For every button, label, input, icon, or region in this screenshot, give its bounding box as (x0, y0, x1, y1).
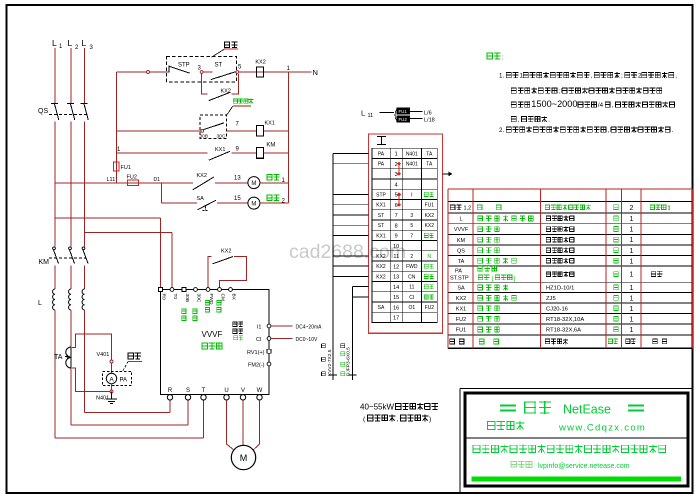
svg-text:FWD: FWD (406, 264, 418, 270)
svg-text:1: 1 (630, 306, 634, 313)
svg-text:,: , (607, 127, 609, 134)
svg-text:VVVF: VVVF (454, 227, 469, 233)
svg-text:1: 1 (630, 227, 634, 234)
svg-text:KX2: KX2 (376, 254, 386, 260)
wire TA secondary bottom (72, 368, 110, 392)
wire L2 down to S loop (70, 310, 72, 347)
svg-text:STP: STP (178, 63, 190, 69)
svg-text:1: 1 (395, 152, 398, 158)
svg-text:13: 13 (393, 275, 399, 281)
svg-text::: : (502, 55, 504, 62)
svg-text:1.: 1. (499, 73, 504, 80)
terminal strip symbol I (377, 137, 386, 145)
svg-text:NetEase: NetEase (563, 403, 611, 417)
svg-text:15: 15 (234, 196, 241, 202)
wire V to motor (242, 400, 244, 445)
contactor coil KM (256, 148, 263, 159)
svg-text:3: 3 (395, 172, 398, 178)
fuse FU1 (114, 162, 120, 171)
svg-text:1500~2000: 1500~2000 (531, 99, 577, 109)
svg-text:PA: PA (378, 151, 385, 157)
svg-text:V401: V401 (97, 352, 110, 358)
svg-text:6: 6 (395, 203, 398, 209)
svg-text:D1: D1 (154, 177, 161, 183)
svg-text:1: 1 (630, 237, 634, 244)
wire W to motor (254, 400, 260, 450)
svg-text:L: L (459, 217, 462, 223)
svg-text:.: . (672, 127, 674, 134)
svg-text:CN: CN (408, 274, 416, 280)
svg-text:KX2: KX2 (425, 213, 435, 219)
svg-text:R: R (168, 388, 173, 394)
svg-text:30C: 30C (217, 133, 226, 139)
wire L2 to KM (70, 122, 72, 247)
svg-text:VVVF: VVVF (202, 330, 223, 339)
svg-text:T0: T0 (172, 294, 178, 300)
wire ammeter to ground (111, 384, 113, 392)
svg-text:TA: TA (54, 354, 63, 361)
label meter note (128, 353, 141, 360)
svg-text:TA: TA (458, 259, 465, 265)
node N401 (110, 390, 113, 393)
svg-text:12: 12 (393, 264, 399, 270)
svg-text:;: ; (558, 88, 560, 95)
fan motor M1 (248, 177, 260, 189)
svg-text:M: M (240, 453, 248, 463)
node V401 (110, 360, 113, 363)
svg-text:1: 1 (630, 216, 634, 223)
svg-text:TA: TA (426, 151, 433, 157)
svg-text:M: M (251, 202, 256, 208)
svg-text:5: 5 (410, 223, 413, 229)
svg-text:BX: BX (231, 294, 237, 301)
contactor coil KX1 (256, 126, 263, 137)
switch SA (manual fan 2) (198, 200, 216, 210)
svg-text:KX2: KX2 (456, 296, 466, 302)
svg-text:CM: CM (220, 294, 226, 301)
svg-text:RT18-32X,6A: RT18-32X,6A (546, 328, 581, 334)
svg-text:L: L (82, 38, 87, 48)
svg-text:TA: TA (426, 162, 433, 168)
svg-text:S: S (186, 388, 190, 394)
svg-text::: : (534, 463, 536, 470)
svg-text:,: , (675, 73, 677, 80)
svg-text:5: 5 (395, 193, 398, 199)
wire tap L3 to T0 (85, 232, 173, 234)
wire TA secondary top (72, 334, 112, 373)
svg-text:10: 10 (393, 244, 399, 250)
svg-text:FU2: FU2 (127, 175, 137, 181)
wire CI input (271, 338, 293, 340)
svg-text:): ) (429, 416, 431, 423)
svg-text:1: 1 (630, 316, 634, 323)
svg-text:13: 13 (234, 176, 241, 182)
jumper links (red) (398, 164, 400, 174)
svg-text:I: I (411, 192, 412, 198)
svg-text:7: 7 (395, 213, 398, 219)
svg-text:30B: 30B (184, 294, 190, 303)
svg-text:,: , (612, 102, 614, 109)
relay coil KX2 (256, 67, 263, 77)
svg-text:;: ; (621, 73, 623, 80)
svg-text:N: N (313, 68, 318, 77)
svg-text:FU1: FU1 (121, 165, 131, 171)
svg-text:lvpinfo@service.netease.com: lvpinfo@service.netease.com (538, 463, 630, 470)
svg-text:7: 7 (410, 233, 413, 239)
svg-text:KX1: KX1 (456, 306, 466, 312)
svg-text:SA: SA (378, 305, 385, 311)
label run (green, vertical) (205, 300, 210, 305)
svg-text:ST: ST (378, 223, 384, 229)
svg-text:1: 1 (630, 258, 634, 265)
logo line 1 (500, 406, 516, 411)
svg-text:O1: O1 (408, 305, 415, 311)
fuse FU2 (128, 180, 139, 185)
inverter VVVF U1 (161, 290, 269, 395)
contact KX1 NO (209, 151, 230, 160)
svg-text:W: W (257, 388, 263, 394)
svg-text:30B: 30B (200, 133, 209, 139)
svg-text:KX2: KX2 (221, 249, 231, 255)
ammeter A (106, 373, 116, 383)
svg-text:QS: QS (38, 108, 48, 115)
svg-text:,: , (591, 73, 593, 80)
svg-text:ST: ST (378, 213, 384, 219)
svg-text:8: 8 (395, 223, 398, 229)
wire L3 drop (84, 48, 86, 104)
svg-text:KX2: KX2 (425, 223, 435, 229)
svg-text:1: 1 (630, 248, 634, 255)
svg-text:RV1(+): RV1(+) (247, 350, 265, 356)
inverter top terminals (159, 288, 163, 292)
svg-text:L: L (68, 38, 73, 48)
svg-text:): ) (514, 276, 516, 282)
wire control right rail (288, 72, 290, 203)
svg-text:R0: R0 (161, 294, 167, 300)
svg-text:CJ20-16: CJ20-16 (546, 306, 568, 312)
svg-text:SA: SA (457, 286, 465, 292)
logo email (511, 461, 532, 468)
svg-text:L11: L11 (107, 177, 116, 183)
label fault output (green, vertical) (182, 309, 187, 314)
terminal strip table (369, 134, 443, 333)
NetEase logo box (465, 393, 688, 486)
svg-text:40~55kW: 40~55kW (360, 403, 394, 412)
svg-text:9: 9 (395, 234, 398, 240)
svg-text:N: N (427, 254, 431, 260)
svg-text:ST: ST (215, 63, 223, 69)
svg-text:11: 11 (368, 113, 374, 119)
wire U to motor (227, 400, 234, 450)
svg-text:/4: /4 (598, 102, 604, 109)
contact KX2 self-hold (202, 74, 208, 94)
svg-text:DC0~10V: DC0~10V (296, 337, 318, 343)
svg-text:M: M (251, 181, 256, 187)
node junction (147, 71, 150, 74)
svg-text:FU2: FU2 (399, 117, 408, 122)
svg-text:RT18-32X,10A: RT18-32X,10A (546, 317, 584, 323)
logo line 2 (487, 421, 525, 430)
svg-text:STP: STP (376, 192, 386, 198)
logo green bar (472, 477, 682, 482)
arrow reference (443, 173, 449, 175)
wire L3 down to R loop (84, 310, 86, 413)
logo slogan (473, 445, 667, 454)
svg-text:KX1: KX1 (265, 121, 275, 127)
svg-text:www.Cdqzx.com: www.Cdqzx.com (558, 423, 646, 434)
label freq setting (233, 322, 244, 327)
svg-text:QS: QS (457, 248, 465, 254)
svg-text:(: ( (492, 276, 494, 282)
svg-text:FU1: FU1 (425, 203, 435, 209)
svg-text:PA: PA (120, 378, 128, 384)
svg-text:KX2: KX2 (376, 274, 386, 280)
svg-text:3: 3 (410, 213, 413, 219)
svg-text:ZJ5: ZJ5 (546, 296, 556, 302)
svg-text:HZ1D-10/1: HZ1D-10/1 (546, 286, 574, 292)
svg-text:KX2: KX2 (376, 264, 386, 270)
wires into terminal strip (332, 153, 334, 380)
svg-text:2.: 2. (499, 127, 504, 134)
svg-text:FU2: FU2 (456, 317, 466, 323)
svg-text:SA: SA (197, 196, 205, 202)
svg-text:1: 1 (630, 272, 634, 279)
fan motor M2 (248, 197, 260, 209)
svg-text:2: 2 (395, 162, 398, 168)
svg-text:KX1: KX1 (215, 147, 225, 153)
svg-text:KM: KM (457, 238, 466, 244)
wire tap L1 to R0 (55, 217, 161, 219)
wire L2 drop (70, 48, 72, 104)
svg-text:1: 1 (630, 327, 634, 334)
svg-text:KX1: KX1 (376, 233, 386, 239)
contact KX2 to FWD/CM (208, 256, 211, 287)
svg-text:KX2: KX2 (221, 89, 231, 95)
svg-text:14: 14 (393, 285, 399, 291)
svg-text:1: 1 (630, 295, 634, 302)
svg-text:KVV2-7X2.5: KVV2-7X2.5 (327, 349, 333, 376)
svg-text:L: L (38, 300, 42, 307)
wire L1 to KM (54, 122, 56, 247)
svg-text:KX2: KX2 (197, 173, 207, 179)
svg-text:KX2: KX2 (255, 60, 265, 66)
wire rail 2 (KX1 coil circuit) (116, 130, 200, 132)
label panel note (211, 49, 224, 57)
svg-text:FU2: FU2 (425, 305, 435, 311)
motor M (231, 445, 255, 469)
contact KX2 (fan 1) (193, 177, 214, 190)
svg-text:FU1: FU1 (399, 109, 408, 114)
svg-text:,: , (397, 416, 399, 423)
svg-text:KX1: KX1 (376, 203, 386, 209)
ammeter PA dashed box (103, 372, 132, 386)
svg-text:1: 1 (630, 285, 634, 292)
svg-text:PA: PA (455, 269, 462, 275)
ground symbol (111, 392, 113, 400)
wire fan row 2 (160, 183, 162, 203)
svg-text:11: 11 (393, 254, 399, 260)
svg-text:2: 2 (630, 205, 634, 212)
svg-text:2: 2 (410, 254, 413, 260)
svg-text:cad2688.com: cad2688.com (289, 241, 406, 263)
BOM header row (450, 339, 455, 344)
svg-text:FM2(-): FM2(-) (248, 363, 265, 369)
svg-text:ST.STP: ST.STP (450, 276, 469, 282)
svg-text:15: 15 (393, 295, 399, 301)
svg-text:N401: N401 (96, 396, 109, 402)
svg-text:CI: CI (409, 295, 414, 301)
svg-text:16: 16 (393, 305, 399, 311)
svg-text:.: . (548, 117, 550, 124)
wire L3 to KM (84, 122, 86, 247)
BOM table (448, 188, 693, 190)
svg-text:KM: KM (39, 259, 50, 266)
svg-text:L: L (52, 38, 57, 48)
BOM row fans (450, 204, 462, 210)
svg-text:KM: KM (266, 143, 275, 149)
svg-text:N401: N401 (406, 151, 418, 157)
svg-text:DC4~20mA: DC4~20mA (296, 324, 323, 330)
svg-text:FU1: FU1 (456, 328, 466, 334)
inverter fault contact box 30B/30C (200, 115, 226, 139)
svg-text:CI: CI (256, 337, 262, 343)
svg-text:17: 17 (393, 316, 399, 322)
svg-text:FWD: FWD (208, 294, 214, 305)
svg-text:30C: 30C (196, 294, 202, 303)
svg-text:T: T (202, 388, 206, 394)
wire L1 down to T loop (54, 310, 56, 438)
wire KM to L reactor (54, 266, 56, 290)
svg-text:1: 1 (668, 205, 671, 211)
wire I1 input (271, 325, 293, 327)
svg-text:1,2: 1,2 (464, 205, 472, 211)
svg-text:N401: N401 (406, 162, 418, 168)
svg-text:A: A (109, 376, 114, 383)
svg-text:11: 11 (409, 285, 414, 291)
svg-text:I1: I1 (257, 324, 262, 330)
svg-text:L/6: L/6 (424, 111, 432, 117)
title block cell (459, 389, 461, 494)
wire control left rail (115, 72, 117, 183)
svg-text:4: 4 (395, 182, 398, 188)
notes heading (487, 53, 501, 60)
svg-text:,: , (518, 117, 520, 124)
inverter bottom terminals R S T U V W (167, 395, 172, 400)
svg-text:PA: PA (378, 162, 385, 168)
wire L1 drop (54, 48, 56, 104)
svg-text:L/18: L/18 (424, 118, 435, 124)
svg-text:L: L (361, 109, 365, 118)
svg-text:DJFP3-6X0.5: DJFP3-6X0.5 (345, 347, 351, 376)
svg-text:U: U (224, 388, 228, 394)
wire control top rail (116, 71, 168, 73)
pushbutton box (panel) (167, 57, 237, 83)
svg-text:V: V (241, 388, 245, 394)
